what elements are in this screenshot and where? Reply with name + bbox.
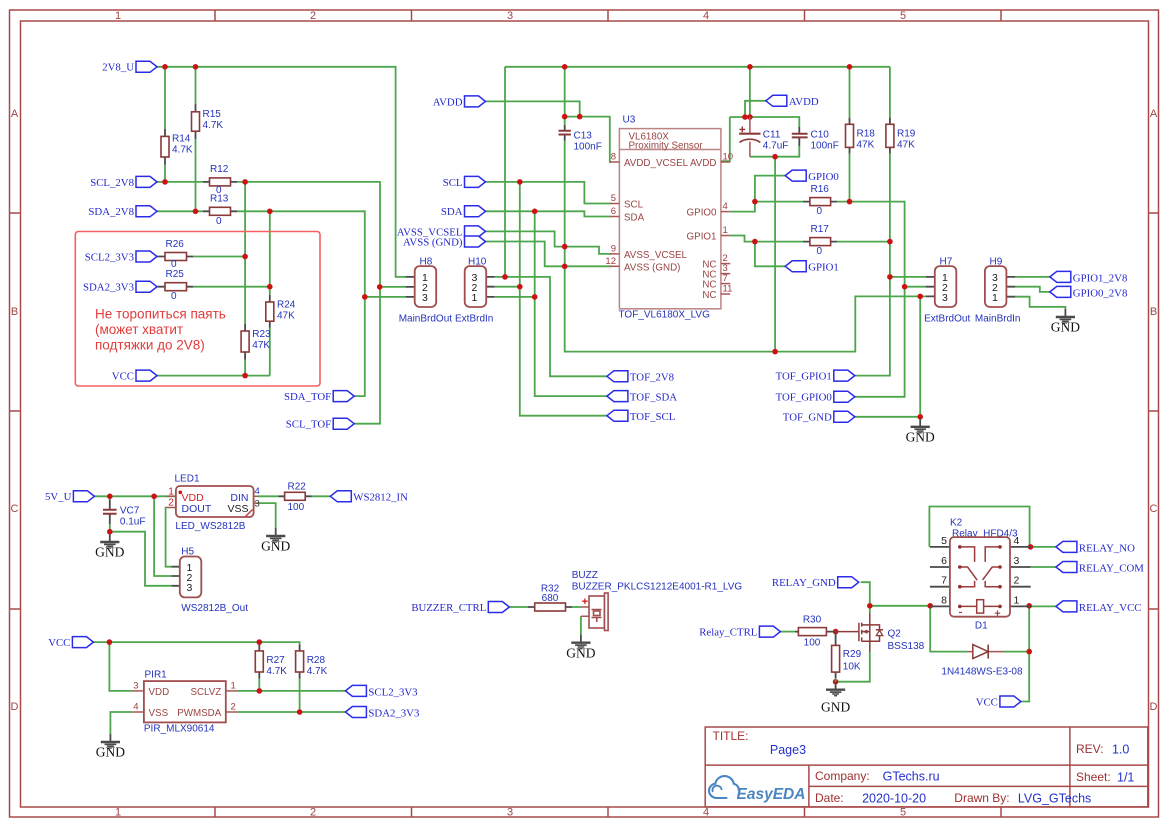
svg-text:AVSS (GND): AVSS (GND)	[624, 262, 680, 273]
svg-text:A: A	[11, 108, 19, 120]
svg-text:GPIO1: GPIO1	[808, 262, 839, 274]
net flag SDA_TOF	[333, 391, 354, 402]
svg-text:47K: 47K	[277, 311, 295, 322]
net flag GPIO0_2V8	[1050, 286, 1071, 297]
wire AVDD right label	[745, 101, 766, 117]
wire SDA bus to SDA_TOF	[354, 297, 365, 396]
svg-text:PIR1: PIR1	[145, 669, 168, 680]
svg-text:H9: H9	[990, 256, 1003, 267]
svg-text:B: B	[11, 306, 18, 318]
capacitor C13	[564, 125, 566, 141]
wire SCLVZ row	[237, 690, 345, 692]
svg-text:VCC: VCC	[976, 696, 998, 708]
diode D1	[968, 651, 1003, 653]
wire H10 pin1 column to TOF_SDA	[495, 211, 607, 396]
resistor R28	[299, 645, 301, 679]
svg-text:K2: K2	[950, 517, 963, 528]
svg-text:4: 4	[703, 807, 709, 819]
svg-text:4: 4	[703, 10, 709, 22]
svg-text:8: 8	[941, 594, 947, 606]
header H9	[1006, 277, 1015, 297]
wire AVSS GND label path	[486, 242, 612, 267]
U3 pin 3 NC	[721, 273, 730, 275]
svg-text:1: 1	[115, 10, 121, 22]
svg-text:SCL2_3V3: SCL2_3V3	[368, 686, 417, 698]
wire H10 pin3 column	[495, 67, 607, 377]
svg-text:7: 7	[941, 575, 947, 587]
wire relay pin3 to RELAY_COM	[1031, 566, 1056, 568]
svg-text:H5: H5	[181, 547, 194, 558]
svg-text:Proximity Sensor: Proximity Sensor	[629, 140, 704, 151]
net flag VCC bottom	[72, 637, 93, 648]
wire LED1 DOUT to H5 pin1	[166, 508, 172, 567]
svg-text:100nF: 100nF	[574, 141, 602, 152]
resistor R22	[279, 495, 312, 497]
svg-text:R16: R16	[811, 184, 830, 195]
svg-text:VSS: VSS	[149, 708, 169, 719]
wire buzzer to GND	[580, 616, 582, 635]
header H8	[406, 277, 415, 297]
svg-text:RELAY_NO: RELAY_NO	[1079, 542, 1135, 554]
net flag TOF_SCL	[607, 410, 628, 421]
svg-text:GPIO1: GPIO1	[687, 232, 717, 243]
svg-text:VSS: VSS	[227, 503, 248, 515]
ground below LED1 VSS	[266, 528, 285, 542]
wire Q2 drain	[869, 606, 871, 613]
svg-text:7: 7	[723, 273, 728, 284]
resistor R26	[158, 256, 193, 258]
svg-text:GTechs.ru: GTechs.ru	[883, 770, 940, 784]
svg-text:1: 1	[992, 292, 998, 304]
svg-text:2: 2	[310, 10, 316, 22]
ground below TOF_GND	[911, 419, 930, 433]
wire R13 branch down / R24 column	[269, 211, 271, 375]
wire R19 column	[855, 67, 890, 376]
IC U3 VL6180X	[619, 129, 721, 309]
svg-text:C: C	[11, 503, 19, 515]
wire H5 pin3 to VC7	[110, 532, 172, 586]
svg-text:Drawn By:: Drawn By:	[954, 791, 1009, 805]
svg-text:AVDD: AVDD	[433, 96, 463, 108]
svg-text:D: D	[11, 701, 19, 713]
svg-text:C: C	[1150, 503, 1158, 515]
svg-text:AVSS_VCSEL: AVSS_VCSEL	[624, 250, 688, 261]
wire R16 row	[755, 202, 926, 287]
svg-text:10: 10	[723, 152, 734, 163]
wire H9 pin3 to GPIO1_2V8	[1015, 276, 1050, 278]
net flag VCC right	[1000, 696, 1021, 707]
svg-text:1N4148WS-E3-08: 1N4148WS-E3-08	[941, 666, 1023, 677]
wire relay top loop	[929, 507, 1029, 547]
wire relay pin4 to RELAY_NO	[1031, 546, 1056, 548]
EasyEDA logo	[709, 776, 739, 798]
svg-text:NC: NC	[702, 280, 716, 291]
svg-text:R25: R25	[166, 269, 185, 280]
svg-text:AVDD: AVDD	[690, 158, 717, 169]
svg-text:SCL_2V8: SCL_2V8	[90, 177, 134, 189]
svg-text:SDA_2V8: SDA_2V8	[88, 206, 134, 218]
TITLE BLOCK	[705, 727, 1148, 807]
svg-text:5V_U: 5V_U	[45, 491, 72, 503]
header H10	[486, 277, 495, 297]
wire SCL2_3V3 row	[157, 256, 245, 258]
resistor R27	[258, 645, 260, 679]
svg-text:100: 100	[804, 638, 821, 649]
svg-text:VCC: VCC	[48, 637, 70, 649]
svg-text:3: 3	[422, 292, 428, 304]
net flag SCL2_3V3	[136, 251, 157, 262]
svg-text:R24: R24	[277, 300, 296, 311]
svg-text:SCLVZ: SCLVZ	[190, 687, 221, 698]
svg-text:2: 2	[1014, 575, 1020, 587]
wire R18 column	[849, 67, 851, 202]
svg-text:GND: GND	[96, 745, 125, 760]
PIR1 pin 1 SCLVZ	[226, 690, 237, 692]
svg-text:R19: R19	[897, 129, 916, 140]
resistor R12	[203, 181, 237, 183]
svg-text:SDA_TOF: SDA_TOF	[284, 391, 331, 403]
svg-text:1: 1	[115, 807, 121, 819]
svg-text:GND: GND	[821, 700, 850, 715]
svg-text:MainBrdOut: MainBrdOut	[399, 313, 453, 324]
wire VCC row in box	[157, 360, 270, 376]
svg-text:2: 2	[310, 807, 316, 819]
svg-text:SDA2_3V3: SDA2_3V3	[83, 282, 134, 294]
net flag WS2812_IN	[330, 491, 351, 502]
wire relay pin8 row	[870, 605, 930, 607]
wire 2V8_U top rail	[157, 67, 406, 277]
svg-text:TOF_GPIO1: TOF_GPIO1	[776, 371, 832, 383]
wire R14 column	[164, 67, 166, 182]
wire C13 column	[565, 67, 926, 352]
svg-text:1: 1	[472, 292, 478, 304]
svg-text:47K: 47K	[252, 340, 270, 351]
PIR1 pin 4 VSS	[132, 711, 144, 713]
wire U3 top rail	[505, 66, 890, 68]
svg-text:1: 1	[1014, 594, 1020, 606]
svg-text:SCL_TOF: SCL_TOF	[286, 419, 331, 431]
U3 pin 1 GPIO1	[721, 235, 730, 237]
svg-text:D: D	[1150, 701, 1158, 713]
svg-text:C13: C13	[574, 130, 593, 141]
wire PIR1 VSS to GND	[110, 712, 132, 734]
U3 pin 2 NC	[721, 263, 730, 265]
svg-text:0: 0	[171, 291, 177, 302]
svg-text:SDA2_3V3: SDA2_3V3	[368, 707, 419, 719]
svg-text:R15: R15	[203, 109, 222, 120]
svg-text:TOF_GPIO0: TOF_GPIO0	[776, 392, 832, 404]
LED1 pin 4 DIN stub	[254, 495, 258, 497]
svg-text:SCL: SCL	[443, 177, 463, 189]
svg-text:4.7K: 4.7K	[203, 120, 224, 131]
svg-text:5: 5	[941, 535, 947, 547]
net flag SDA2_3V3	[136, 281, 157, 292]
net flag TOF_GPIO0	[834, 391, 855, 402]
svg-text:SCL: SCL	[624, 200, 644, 211]
svg-text:5: 5	[611, 193, 616, 204]
svg-text:3: 3	[255, 499, 260, 510]
svg-text:4.7K: 4.7K	[307, 666, 328, 677]
svg-text:H10: H10	[468, 256, 487, 267]
net flag RELAY_NO	[1056, 541, 1077, 552]
U3 pin 6 SDA	[610, 216, 619, 218]
wire C11 C10 top rail	[722, 67, 800, 161]
svg-text:8: 8	[611, 152, 616, 163]
svg-text:ExtBrdOut: ExtBrdOut	[924, 313, 970, 324]
svg-text:3: 3	[507, 807, 513, 819]
wire H9 pin1 to GND	[1015, 297, 1065, 309]
resistor R29	[835, 633, 837, 678]
svg-text:12: 12	[605, 256, 616, 267]
svg-text:3: 3	[187, 582, 193, 594]
svg-text:3: 3	[507, 10, 513, 22]
wire H10 pin2 column to TOF_SCL	[495, 182, 607, 416]
svg-text:R18: R18	[857, 129, 876, 140]
wire R27 column	[258, 642, 260, 691]
svg-text:NC: NC	[702, 290, 716, 301]
resistor R30	[795, 631, 833, 633]
relay internal contacts	[960, 547, 1000, 607]
resistor R16	[803, 201, 837, 203]
U3 pin 7 NC	[721, 283, 730, 285]
net flag SCL_TOF	[333, 418, 354, 429]
svg-text:SDA: SDA	[441, 206, 463, 218]
svg-text:AVDD: AVDD	[789, 96, 819, 108]
svg-text:2: 2	[168, 497, 174, 509]
svg-text:6: 6	[941, 555, 947, 567]
wire H9 pin2 to GPIO0_2V8	[1015, 287, 1050, 292]
svg-text:REV:: REV:	[1076, 742, 1104, 756]
svg-text:Date:: Date:	[815, 791, 844, 805]
net flag RELAY_COM	[1056, 562, 1077, 573]
wire GPIO0 label loop	[730, 176, 785, 212]
svg-text:47K: 47K	[857, 140, 875, 151]
wire R22 to WS2812_IN	[312, 495, 331, 497]
svg-text:AVDD_VCSEL: AVDD_VCSEL	[624, 158, 689, 169]
svg-text:4: 4	[723, 201, 728, 212]
wire VC7 GND stub	[109, 532, 111, 534]
svg-text:R22: R22	[288, 481, 307, 492]
svg-text:0: 0	[216, 216, 222, 227]
svg-text:TOF_SDA: TOF_SDA	[630, 392, 677, 404]
ground below VC7	[100, 534, 119, 548]
wire SCL_2V8 row	[157, 182, 406, 287]
resistor R23	[244, 324, 246, 360]
svg-text:B: B	[1150, 306, 1157, 318]
net flag RELAY_GND	[838, 577, 859, 588]
svg-text:4: 4	[1014, 535, 1020, 547]
svg-text:VDD: VDD	[149, 687, 170, 698]
wire relay pin1 to RELAY_VCC	[1031, 605, 1056, 607]
resistor R19	[889, 118, 891, 154]
net flag 5V_U	[73, 491, 94, 502]
svg-text:2V8_U: 2V8_U	[102, 62, 134, 74]
svg-text:11: 11	[723, 284, 733, 295]
wire H7 pin3 to TOF_GND	[855, 296, 920, 420]
svg-text:LED_WS2812B: LED_WS2812B	[175, 521, 245, 532]
resistor R13	[203, 210, 237, 212]
resistor R32	[528, 606, 572, 608]
net flag AVDD right	[766, 95, 787, 106]
capacitor C11 polarized	[749, 117, 751, 157]
svg-text:R26: R26	[166, 239, 185, 250]
net flag BUZZER_CTRL	[488, 602, 509, 613]
net flag TOF_GND	[834, 411, 855, 422]
svg-text:LVG_GTechs: LVG_GTechs	[1018, 792, 1091, 806]
svg-text:EasyEDA: EasyEDA	[737, 786, 806, 803]
U3 pin 12 AVSS (GND)	[610, 265, 619, 267]
net flag SDA2_3V3 right	[345, 707, 366, 718]
svg-text:MainBrdIn: MainBrdIn	[975, 313, 1021, 324]
svg-text:2: 2	[231, 702, 236, 713]
net flag GPIO0	[785, 170, 806, 181]
svg-text:D1: D1	[975, 620, 988, 631]
U3 pin 5 SCL	[610, 203, 619, 205]
ground below R29	[826, 682, 845, 696]
svg-text:C11: C11	[763, 130, 781, 141]
svg-text:RELAY_VCC: RELAY_VCC	[1079, 602, 1142, 614]
svg-text:R29: R29	[843, 649, 862, 660]
svg-text:BSS138: BSS138	[888, 641, 925, 652]
svg-text:PIR_MLX90614: PIR_MLX90614	[144, 723, 215, 734]
wire SCL label row	[486, 182, 612, 204]
wire AVDD label row	[486, 101, 580, 116]
wire GPIO1 label loop	[755, 242, 785, 267]
U3 pin 10 AVDD	[721, 161, 730, 163]
svg-text:(может хватит: (может хватит	[95, 322, 183, 337]
svg-text:4: 4	[255, 486, 260, 497]
net flag SDA mid	[465, 206, 486, 217]
svg-text:GPIO0: GPIO0	[808, 171, 839, 183]
note box	[75, 232, 320, 387]
svg-text:4.7K: 4.7K	[172, 145, 193, 156]
svg-text:100: 100	[288, 502, 305, 513]
svg-text:R30: R30	[803, 614, 822, 625]
svg-text:GND: GND	[95, 545, 124, 560]
svg-text:1/1: 1/1	[1117, 771, 1134, 785]
svg-text:U3: U3	[623, 115, 636, 126]
wire H5 pin2 column	[154, 496, 171, 576]
resistor R14	[164, 129, 166, 165]
svg-text:TITLE:: TITLE:	[713, 729, 749, 743]
wire SDA2_3V3 row	[157, 286, 270, 288]
PIR1 pin 3 VDD	[132, 690, 144, 692]
wire R15 column	[195, 67, 197, 212]
svg-text:H8: H8	[420, 256, 433, 267]
transistor Q2 BSS138	[833, 613, 883, 652]
svg-text:R28: R28	[307, 655, 326, 666]
ground below buzzer	[571, 635, 590, 649]
svg-text:VCC: VCC	[112, 371, 134, 383]
net flag SDA_2V8	[136, 206, 157, 217]
svg-text:LED1: LED1	[175, 474, 200, 485]
wire BUZZER_CTRL row	[509, 606, 582, 608]
svg-text:R13: R13	[210, 194, 229, 205]
svg-text:R27: R27	[266, 655, 285, 666]
svg-text:TOF_GND: TOF_GND	[783, 412, 832, 424]
svg-text:TOF_2V8: TOF_2V8	[630, 372, 674, 384]
svg-text:ExtBrdIn: ExtBrdIn	[455, 313, 493, 324]
IC LED1 WS2812B	[167, 496, 176, 507]
svg-text:4.7K: 4.7K	[266, 666, 287, 677]
ground below H9	[1056, 309, 1075, 323]
IC PIR1 MLX90614	[144, 681, 226, 722]
wire VCC to PIR1 VDD	[109, 642, 132, 691]
svg-text:BUZZER_CTRL: BUZZER_CTRL	[411, 602, 486, 614]
net flag SCL_2V8	[136, 176, 157, 187]
svg-text:A: A	[1150, 108, 1158, 120]
svg-text:H7: H7	[940, 256, 953, 267]
svg-text:C10: C10	[811, 130, 830, 141]
svg-text:3: 3	[1014, 555, 1020, 567]
resistor R18	[849, 118, 851, 154]
svg-text:0: 0	[817, 246, 823, 257]
wire AVDD jog rail	[565, 117, 611, 162]
svg-text:5: 5	[900, 10, 906, 22]
net flag AVSS (GND)	[465, 236, 486, 247]
capacitor C10	[798, 127, 800, 146]
svg-text:1: 1	[723, 225, 728, 236]
svg-text:6: 6	[611, 206, 616, 217]
net flag Relay_CTRL	[759, 626, 780, 637]
svg-text:GND: GND	[906, 430, 935, 445]
svg-text:GPIO0_2V8: GPIO0_2V8	[1073, 287, 1128, 299]
net flag 2V8_U	[136, 61, 157, 72]
net flag TOF_SDA	[607, 391, 628, 402]
svg-text:R23: R23	[252, 329, 271, 340]
net flag TOF_GPIO1	[834, 370, 855, 381]
svg-text:GND: GND	[261, 539, 290, 554]
svg-text:R14: R14	[172, 134, 191, 145]
wire R12 branch down	[244, 182, 246, 324]
resistor R15	[195, 104, 197, 139]
svg-text:GPIO1_2V8: GPIO1_2V8	[1073, 272, 1128, 284]
svg-text:PWMSDA: PWMSDA	[177, 708, 222, 719]
svg-text:Sheet:: Sheet:	[1076, 770, 1111, 784]
svg-text:2020-10-20: 2020-10-20	[862, 792, 926, 806]
wire Relay_CTRL row	[780, 631, 795, 633]
wire R29 top lead	[835, 637, 837, 639]
svg-text:10K: 10K	[843, 662, 861, 673]
svg-text:подтяжки до 2V8): подтяжки до 2V8)	[95, 337, 205, 352]
wire SCL bus to SCL_TOF	[354, 287, 380, 424]
net flag SCL2_3V3 right	[345, 685, 366, 696]
svg-text:SDA: SDA	[624, 213, 645, 224]
wire PWMSDA row	[237, 711, 345, 713]
svg-text:WS2812B_Out: WS2812B_Out	[181, 603, 248, 614]
U3 pin 8 AVDD_VCSEL	[610, 161, 619, 163]
wire H7 pin2 column to TOF_GPIO0	[855, 287, 905, 397]
net flag GPIO1	[785, 261, 806, 272]
svg-text:RELAY_GND: RELAY_GND	[772, 577, 836, 589]
svg-text:Page3: Page3	[770, 743, 806, 757]
svg-text:1: 1	[231, 680, 236, 691]
U3 pin 11 NC	[721, 293, 730, 295]
net flag TOF_2V8	[607, 371, 628, 382]
svg-text:AVSS (GND): AVSS (GND)	[403, 237, 463, 249]
resistor R24	[269, 295, 271, 328]
svg-text:GPIO0: GPIO0	[687, 208, 717, 219]
wire D1 left column	[930, 606, 968, 652]
wire R17 row	[755, 241, 890, 243]
svg-text:RELAY_COM: RELAY_COM	[1079, 562, 1144, 574]
wire Q2 source to R29	[836, 651, 870, 682]
svg-text:TOF_SCL: TOF_SCL	[630, 411, 675, 423]
wire H7 pin1 row	[890, 276, 926, 278]
svg-text:47K: 47K	[897, 140, 915, 151]
resistor R25	[158, 286, 193, 288]
wire R28 column	[299, 679, 301, 713]
